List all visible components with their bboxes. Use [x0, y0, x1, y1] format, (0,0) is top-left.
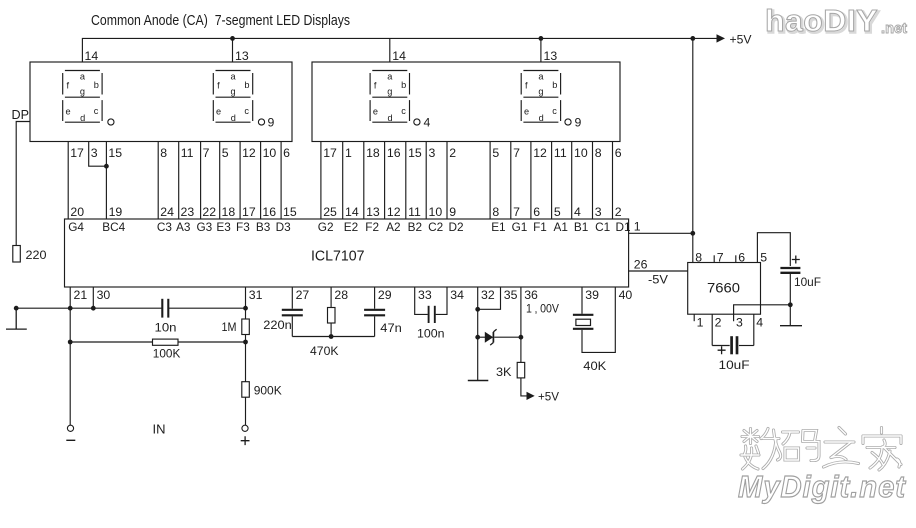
- wire DS1 segment line x68.2: [67, 142, 69, 220]
- wire 7660 pin2 down: [711, 314, 713, 345]
- DS1 bottom pin numbers: [70, 146, 290, 160]
- svg-text:C3: C3: [157, 220, 173, 234]
- svg-text:100n: 100n: [417, 327, 445, 341]
- svg-text:3: 3: [595, 205, 602, 219]
- svg-text:18: 18: [366, 146, 380, 160]
- watermark CJK 数码之家 (decorative): [741, 428, 901, 471]
- wire C47n to rail3: [374, 316, 376, 336]
- wire pin36 down: [520, 287, 522, 362]
- svg-text:39: 39: [585, 288, 599, 302]
- svg-text:31: 31: [249, 288, 263, 302]
- svg-text:4: 4: [756, 316, 763, 330]
- junction pin32/zener anode: [475, 335, 480, 340]
- svg-text:g: g: [80, 86, 85, 96]
- 7-segment digit DS1.2: [213, 71, 252, 124]
- watermark MyDigit.net (decorative): [738, 469, 907, 504]
- svg-text:6: 6: [738, 250, 745, 264]
- svg-text:d: d: [80, 113, 85, 123]
- svg-text:2: 2: [615, 205, 622, 219]
- svg-text:7: 7: [717, 250, 724, 264]
- junction pin32/pin35: [475, 307, 480, 312]
- svg-text:20: 20: [70, 205, 84, 219]
- svg-text:e: e: [373, 107, 378, 117]
- wire 7660 pin5 to C5+: [757, 233, 790, 266]
- wire DS1 segment line x200.6: [200, 142, 202, 220]
- DS2 bottom pin numbers: [323, 146, 622, 160]
- ground GND3 (7660): [780, 325, 802, 327]
- svg-text:14: 14: [392, 49, 406, 63]
- svg-text:4: 4: [424, 116, 431, 130]
- svg-text:17: 17: [323, 146, 337, 160]
- svg-text:G2: G2: [318, 220, 334, 234]
- svg-text:1: 1: [634, 220, 641, 234]
- resistor 3K: [517, 362, 525, 378]
- svg-text:A1: A1: [554, 220, 568, 234]
- wire 7660 pin8 stub: [692, 233, 694, 262]
- svg-text:35: 35: [504, 288, 518, 302]
- capacitor C6 10uF plus sign: [718, 346, 726, 354]
- svg-text:B1: B1: [574, 220, 588, 234]
- svg-text:100K: 100K: [153, 347, 181, 361]
- svg-text:+5V: +5V: [538, 390, 560, 404]
- svg-text:c: c: [401, 106, 406, 116]
- svg-text:G4: G4: [68, 220, 84, 234]
- junction pin36/zener cathode: [519, 335, 524, 340]
- wire ICL7107 pin26 to 7660: [629, 270, 688, 272]
- svg-text:15: 15: [408, 146, 422, 160]
- svg-text:19: 19: [109, 205, 123, 219]
- wire C220n to rail3: [291, 316, 293, 336]
- ground GND1 (left): [6, 308, 27, 329]
- svg-text:F1: F1: [533, 220, 547, 234]
- svg-text:40: 40: [619, 288, 633, 302]
- svg-text:13: 13: [235, 49, 249, 63]
- capacitor C5 10uF plus sign: [792, 256, 800, 264]
- svg-text:5: 5: [554, 205, 561, 219]
- svg-text:G1: G1: [512, 220, 528, 234]
- svg-text:17: 17: [242, 205, 256, 219]
- svg-text:.net: .net: [881, 21, 907, 37]
- wire ICL7107 pin1 to +5V: [629, 232, 693, 234]
- 7660 pin1 stub: [693, 314, 695, 321]
- wire zener anode: [478, 336, 485, 338]
- ICL7107 top pin numbers (right group): [323, 205, 622, 219]
- wire pin2 to C6: [712, 345, 730, 347]
- terminal IN- circle: [67, 425, 73, 431]
- +5V arrow (bottom): [527, 392, 535, 400]
- wire display2 digit4 anode stub: [540, 38, 542, 62]
- capacitor C4 100n: [429, 306, 435, 323]
- svg-text:17: 17: [70, 146, 84, 160]
- wire pin31 down to R 900K: [245, 342, 247, 382]
- svg-text:8: 8: [160, 146, 167, 160]
- capacitor C1 10n: [162, 299, 168, 318]
- svg-text:10: 10: [574, 146, 588, 160]
- wire pin35 jog to pin32: [478, 287, 501, 309]
- wire pin32 down to GND: [477, 287, 479, 381]
- svg-text:900K: 900K: [254, 384, 283, 398]
- svg-text:1 , 00V: 1 , 00V: [526, 302, 560, 316]
- svg-text:25: 25: [323, 205, 337, 219]
- wire zener cathode to pin36 net: [494, 336, 521, 338]
- terminal IN+ circle: [242, 425, 248, 431]
- svg-text:d: d: [231, 113, 236, 123]
- svg-text:12: 12: [242, 146, 256, 160]
- svg-text:18: 18: [222, 205, 236, 219]
- resistor 220: [13, 246, 20, 263]
- 7-segment digit DS2.3: [370, 71, 409, 124]
- wire pin29 down: [374, 287, 376, 309]
- svg-text:c: c: [94, 106, 99, 116]
- IN- minus sign: [66, 439, 75, 441]
- wire pin21 down: [69, 287, 71, 308]
- svg-text:DP: DP: [12, 108, 30, 122]
- wire 7660 pin4 down: [753, 314, 755, 345]
- svg-text:16: 16: [262, 205, 276, 219]
- svg-text:8: 8: [595, 146, 602, 160]
- svg-text:f: f: [67, 81, 70, 91]
- wire 7660 pin3 to ground node: [734, 305, 791, 321]
- junction rail at pin21: [68, 306, 73, 311]
- svg-text:BC4: BC4: [102, 220, 125, 234]
- wire DP from display1 to analog common: [16, 122, 30, 246]
- svg-text:e: e: [524, 107, 529, 117]
- svg-text:ICL7107: ICL7107: [311, 247, 365, 264]
- svg-text:16: 16: [387, 146, 401, 160]
- svg-text:e: e: [216, 107, 221, 117]
- svg-text:28: 28: [334, 288, 348, 302]
- wire DS1 segment line x158.2: [157, 142, 159, 220]
- svg-text:7660: 7660: [707, 281, 740, 296]
- svg-text:8: 8: [492, 205, 499, 219]
- 7-segment digit DS1.1: [63, 71, 102, 124]
- ICL7107 segment pin names (left): [68, 220, 291, 234]
- wire display2 digit3 anode stub: [389, 38, 391, 62]
- wire DS1 segment line x178.7: [178, 142, 180, 220]
- svg-text:9: 9: [449, 205, 456, 219]
- svg-text:+5V: +5V: [730, 32, 753, 46]
- svg-text:4: 4: [574, 205, 581, 219]
- 7660 pin6 stub: [735, 255, 737, 262]
- junction rail at DP branch: [14, 306, 19, 311]
- wire pin31 down to R 1M: [245, 287, 247, 319]
- resistor 470K: [328, 308, 336, 324]
- wire pin33 down and right: [415, 287, 428, 314]
- svg-text:1: 1: [345, 146, 352, 160]
- svg-text:2: 2: [715, 316, 722, 330]
- svg-text:10uF: 10uF: [794, 275, 821, 289]
- wire C6 to pin4: [739, 345, 754, 347]
- svg-text:f: f: [374, 81, 377, 91]
- ground GND2 (ref): [468, 380, 489, 382]
- junction C5-/7660 pin3 ground: [788, 302, 793, 307]
- capacitor C6 10uF: [732, 336, 737, 354]
- wire +5V bus: [82, 38, 716, 62]
- svg-text:A3: A3: [176, 220, 191, 234]
- wire pin27 down: [291, 287, 293, 309]
- svg-text:12: 12: [533, 146, 547, 160]
- svg-text:21: 21: [74, 288, 88, 302]
- svg-text:f: f: [525, 81, 528, 91]
- wire rail3 integrator: [292, 336, 374, 338]
- wire R470K to rail3: [330, 323, 332, 337]
- svg-text:b: b: [552, 80, 557, 90]
- junction rail2 at pin31: [243, 340, 248, 345]
- svg-text:23: 23: [181, 205, 195, 219]
- resistor 100K: [153, 339, 179, 345]
- svg-text:2: 2: [449, 146, 456, 160]
- svg-text:10n: 10n: [155, 321, 177, 335]
- svg-text:47n: 47n: [380, 321, 402, 335]
- junction rail3 at pin28: [329, 334, 334, 339]
- wire pin39 down to crystal: [581, 287, 583, 314]
- junction rail2 at IN- branch: [68, 340, 73, 345]
- wire DS1 pin3 jog to pin15 net: [89, 142, 107, 167]
- IC U1 ICL7107 box: [65, 219, 629, 287]
- svg-text:13: 13: [544, 49, 558, 63]
- svg-text:1: 1: [697, 316, 704, 330]
- svg-text:10: 10: [429, 205, 443, 219]
- ICL7107 segment pin names (right): [318, 220, 631, 234]
- svg-text:b: b: [401, 80, 406, 90]
- wire DS1 segment line x106.4: [105, 142, 107, 220]
- svg-text:6: 6: [533, 205, 540, 219]
- svg-text:26: 26: [634, 258, 648, 272]
- svg-text:haoDIY: haoDIY: [765, 3, 878, 38]
- svg-text:d: d: [388, 113, 393, 123]
- svg-text:36: 36: [524, 288, 538, 302]
- wire common rail (cap C1 to pin31): [169, 307, 246, 309]
- svg-text:a: a: [80, 72, 86, 82]
- svg-text:220: 220: [26, 248, 47, 262]
- ICL7107 bottom pin numbers: [74, 288, 633, 302]
- 7-segment digit DS2.4: [521, 71, 560, 124]
- svg-text:29: 29: [378, 288, 392, 302]
- svg-text:e: e: [65, 107, 70, 117]
- wire pin30 down: [92, 287, 94, 308]
- watermark haoDIY.net logo (decorative): [765, 3, 907, 40]
- svg-text:E3: E3: [216, 220, 231, 234]
- wire 3K to +5V arrow: [521, 378, 527, 396]
- wire +5V rail down to pin1 node: [692, 38, 694, 233]
- svg-text:11: 11: [554, 146, 567, 160]
- svg-text:7: 7: [203, 146, 210, 160]
- svg-text:5: 5: [760, 250, 767, 264]
- svg-text:E1: E1: [491, 220, 505, 234]
- svg-text:g: g: [387, 86, 392, 96]
- svg-text:Common Anode (CA) 7-segment L: Common Anode (CA) 7-segment LED Displays: [91, 13, 350, 29]
- svg-text:3: 3: [429, 146, 436, 160]
- svg-text:9: 9: [268, 116, 275, 130]
- display module DS1 box: [30, 62, 292, 142]
- decimal point DP3: [414, 119, 420, 125]
- svg-text:24: 24: [160, 205, 174, 219]
- wire DS1 segment line x240.1: [239, 142, 241, 220]
- svg-text:a: a: [230, 72, 236, 82]
- svg-text:b: b: [94, 80, 99, 90]
- svg-text:33: 33: [418, 288, 432, 302]
- svg-text:f: f: [217, 81, 220, 91]
- svg-text:D1: D1: [616, 220, 631, 234]
- junction pin3/pin15 net: [104, 164, 109, 169]
- svg-text:7: 7: [513, 146, 520, 160]
- wire pin34 down and left: [436, 287, 447, 314]
- svg-text:8: 8: [695, 250, 702, 264]
- wire R1M to rail2: [245, 335, 247, 343]
- svg-text:3: 3: [91, 146, 98, 160]
- svg-text:1M: 1M: [222, 320, 237, 334]
- junction on +5V bus at digit4: [539, 36, 544, 41]
- wire crystal to pin40: [582, 287, 615, 352]
- svg-text:-5V: -5V: [648, 273, 669, 287]
- decimal point DP4: [565, 119, 571, 125]
- wire common rail (pin21/30 to cap C1): [16, 307, 162, 309]
- wire rail2 (100K) left part: [70, 341, 152, 343]
- svg-text:g: g: [538, 86, 543, 96]
- decimal point DP2: [258, 119, 264, 125]
- svg-text:F3: F3: [236, 220, 250, 234]
- wire DS1 segment line x281.1: [280, 142, 282, 220]
- wire rail2 (100K) right part: [178, 341, 246, 343]
- capacitor C2 220n: [282, 310, 303, 316]
- svg-text:3: 3: [736, 316, 743, 330]
- svg-text:C2: C2: [428, 220, 443, 234]
- svg-text:11: 11: [181, 146, 194, 160]
- svg-text:14: 14: [85, 49, 99, 63]
- svg-text:b: b: [244, 80, 249, 90]
- wire display1 digit2 anode stub: [232, 38, 234, 62]
- svg-text:10: 10: [263, 146, 277, 160]
- crystal X1 40K: [573, 315, 594, 329]
- svg-text:B3: B3: [256, 220, 271, 234]
- zener diode D1: [485, 329, 497, 345]
- junction on +5V bus to 7660: [690, 36, 695, 41]
- svg-text:11: 11: [408, 205, 421, 219]
- svg-text:a: a: [538, 72, 544, 82]
- svg-text:9: 9: [575, 116, 582, 130]
- wire R900K to IN+: [245, 397, 247, 425]
- svg-text:22: 22: [202, 205, 216, 219]
- svg-text:470K: 470K: [310, 344, 339, 358]
- svg-text:7: 7: [513, 205, 520, 219]
- svg-text:13: 13: [366, 205, 380, 219]
- svg-text:14: 14: [345, 205, 359, 219]
- svg-text:6: 6: [615, 146, 622, 160]
- svg-text:F2: F2: [365, 220, 379, 234]
- capacitor C5 10uF: [780, 268, 800, 273]
- svg-text:a: a: [387, 72, 393, 82]
- svg-text:5: 5: [492, 146, 499, 160]
- junction rail at pin30: [91, 306, 96, 311]
- svg-text:3K: 3K: [496, 365, 512, 379]
- svg-text:10uF: 10uF: [719, 358, 751, 372]
- wire DS1 segment line x260.6: [260, 142, 262, 220]
- svg-text:B2: B2: [408, 220, 422, 234]
- junction pin1/+5V/7660-pin8: [690, 231, 695, 236]
- svg-text:32: 32: [481, 288, 495, 302]
- wire DS1 segment line x219.7: [219, 142, 221, 220]
- display module DS2 box: [312, 62, 620, 142]
- svg-text:15: 15: [108, 146, 122, 160]
- svg-text:c: c: [552, 106, 557, 116]
- svg-text:220n: 220n: [263, 318, 292, 332]
- svg-text:D2: D2: [449, 220, 464, 234]
- svg-text:D3: D3: [276, 220, 292, 234]
- IC U2 7660 box: [688, 263, 761, 315]
- junction rail at pin31: [243, 306, 248, 311]
- junction on +5V bus at digit2: [230, 36, 235, 41]
- svg-text:c: c: [244, 106, 249, 116]
- svg-text:A2: A2: [386, 220, 400, 234]
- wire DS2 segment lines: [321, 142, 613, 220]
- svg-text:15: 15: [283, 205, 297, 219]
- wire pin21 branch down to IN-: [69, 308, 71, 425]
- decimal point DP1: [108, 119, 114, 125]
- resistor 900K: [242, 382, 250, 398]
- svg-text:30: 30: [97, 288, 111, 302]
- svg-text:6: 6: [283, 146, 290, 160]
- svg-text:27: 27: [296, 288, 310, 302]
- capacitor C3 47n: [364, 310, 385, 316]
- wire pin28 down to R470K: [330, 287, 332, 308]
- svg-text:E2: E2: [344, 220, 358, 234]
- svg-text:5: 5: [222, 146, 229, 160]
- svg-text:IN: IN: [153, 422, 166, 437]
- svg-text:g: g: [230, 86, 235, 96]
- svg-text:G3: G3: [197, 220, 213, 234]
- svg-text:d: d: [539, 113, 544, 123]
- svg-text:34: 34: [450, 288, 464, 302]
- resistor 1M: [242, 319, 250, 335]
- wire C5- to ground node: [789, 274, 791, 326]
- ICL7107 top pin numbers (left group): [70, 205, 296, 219]
- IN+ plus sign: [241, 436, 250, 445]
- +5V arrow (top right): [717, 34, 726, 42]
- svg-text:40K: 40K: [583, 359, 607, 373]
- svg-text:MyDigit.net: MyDigit.net: [738, 469, 907, 504]
- svg-text:C1: C1: [595, 220, 610, 234]
- 7660 pin7 stub: [713, 255, 715, 262]
- svg-text:12: 12: [387, 205, 401, 219]
